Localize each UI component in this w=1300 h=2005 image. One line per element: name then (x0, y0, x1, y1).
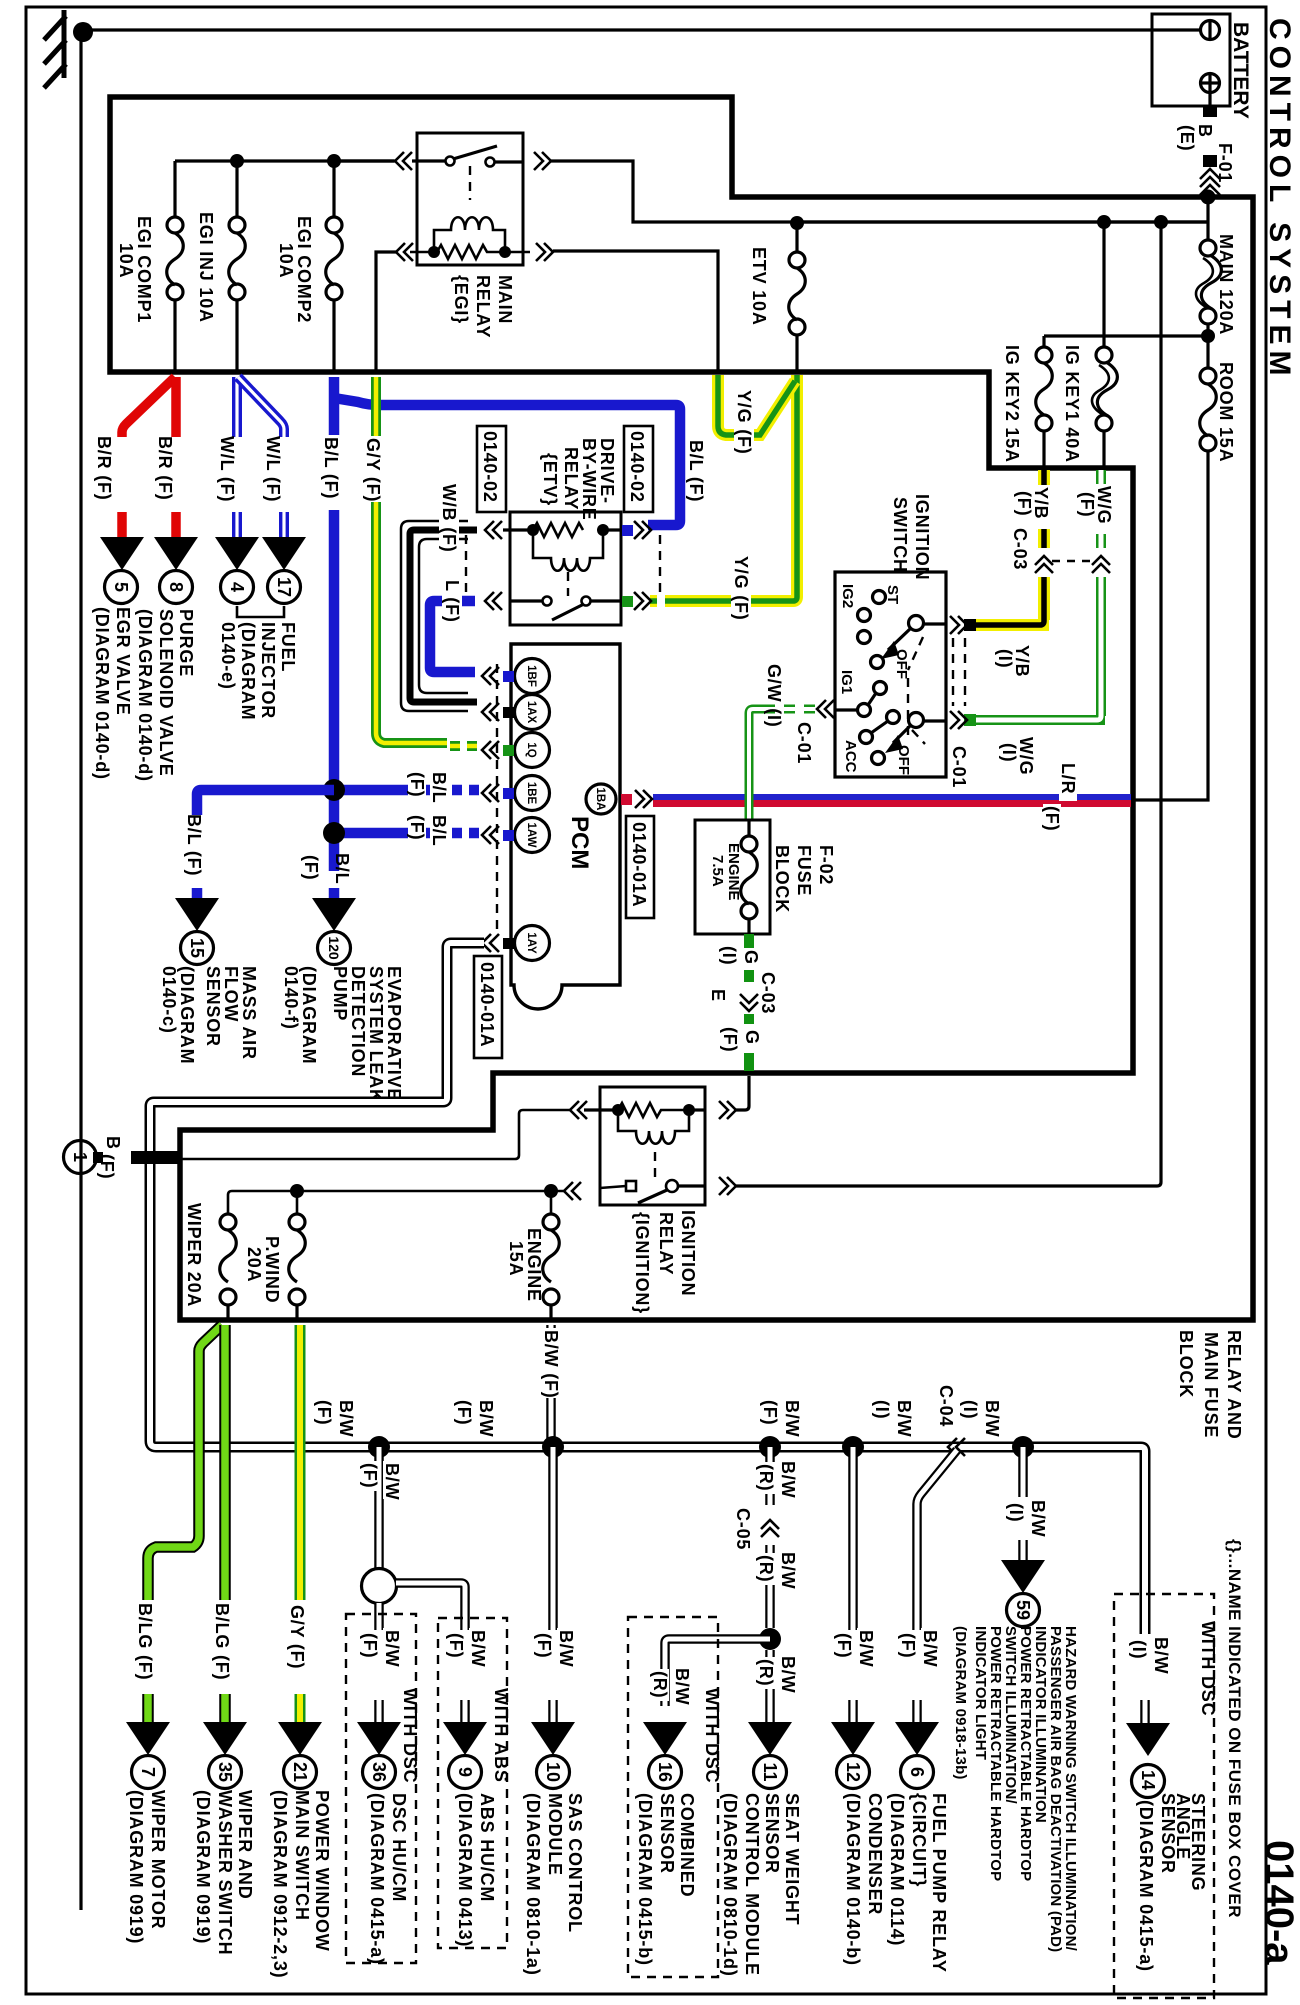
svg-text:15: 15 (187, 938, 207, 958)
svg-text:10: 10 (543, 1762, 563, 1782)
wire ROOM fuse output to L/R (1133, 451, 1208, 800)
label B/W (F) on bus mid (476, 1398, 496, 1437)
svg-text:(F): (F) (1014, 491, 1034, 516)
ignition relay coil row (584, 1108, 614, 1111)
label Y/B (I) (995, 643, 1032, 693)
label B/W (I) after C-04 (982, 1398, 1002, 1437)
wire B/L to PCM 1AW (340, 828, 447, 839)
connector F-01 chevrons (1200, 169, 1220, 195)
svg-text:15A: 15A (506, 1241, 526, 1276)
svg-text:G/Y (F): G/Y (F) (287, 1605, 307, 1669)
svg-text:COMBINED: COMBINED (677, 1793, 697, 1897)
svg-text:12: 12 (843, 1762, 863, 1782)
svg-text:B/W: B/W (982, 1400, 1002, 1437)
svg-text:SENSOR: SENSOR (1158, 1793, 1178, 1874)
connector chevrons G/W at ignition switch (817, 700, 826, 718)
dashed option box WITH DSC (346, 1614, 416, 1963)
label B/W (F) (556, 1628, 576, 1667)
svg-text:WITH ABS: WITH ABS (491, 1688, 511, 1783)
svg-text:FLOW: FLOW (221, 966, 241, 1022)
svg-text:B/R (F): B/R (F) (94, 436, 114, 501)
DBW relay coil (533, 530, 603, 571)
boxed label 0140-01A below PCM (474, 956, 502, 1058)
wire B/W drop to splice (374, 1447, 384, 1569)
wire EGI fuse bus (175, 159, 395, 162)
svg-text:RELAY: RELAY (473, 275, 493, 338)
svg-text:POWER WINDOW: POWER WINDOW (312, 1790, 332, 1952)
svg-text:BLOCK: BLOCK (772, 845, 792, 913)
svg-text:IG1: IG1 (838, 670, 855, 694)
svg-text:14: 14 (1138, 1770, 1158, 1790)
svg-text:G/Y (F): G/Y (F) (363, 438, 383, 502)
wire G (F) segment to fuse block boundary (744, 1053, 754, 1071)
terminal circle 16 (649, 1756, 682, 1789)
svg-text:(DIAGRAM 0415-a): (DIAGRAM 0415-a) (367, 1793, 387, 1965)
pin 1BF (515, 659, 550, 694)
wire G/W (I) solid to F-02 (749, 709, 772, 820)
DBW relay resistor row (503, 528, 529, 531)
arrow to purge solenoid valve (154, 537, 198, 570)
svg-text:RELAY: RELAY (656, 1212, 676, 1275)
dashed mechanical link (908, 637, 925, 744)
battery box (1152, 14, 1230, 106)
ignition relay coil (618, 1110, 689, 1144)
svg-text:16: 16 (655, 1762, 675, 1782)
svg-text:35: 35 (215, 1762, 235, 1782)
svg-text:B/L: B/L (332, 853, 352, 884)
svg-text:(DIAGRAM 0415-a): (DIAGRAM 0415-a) (1136, 1800, 1156, 1972)
arrow to seat weight sensor control module (748, 1722, 792, 1755)
svg-text:(DIAGRAM 0413): (DIAGRAM 0413) (455, 1793, 475, 1947)
wire battery bus y222 (797, 220, 1208, 223)
svg-text:(DIAGRAM 0912-2,3): (DIAGRAM 0912-2,3) (270, 1790, 290, 1978)
connector F-01 terminal squares (1203, 107, 1217, 117)
label B/W (F) (541, 1328, 561, 1399)
svg-text:B/W: B/W (382, 1630, 402, 1667)
wire G (I) below F-02 (744, 934, 754, 948)
wire B/LG (F) to wiper motor (148, 1325, 222, 1722)
wire IG1 to G/W (835, 708, 858, 711)
terminal circle 17 (268, 571, 301, 604)
wire main relay output to ETV bus (551, 161, 1208, 222)
svg-text:0140-e): 0140-e) (218, 622, 238, 690)
ground terminal circle 1 (64, 1141, 97, 1174)
svg-text:C-01: C-01 (794, 722, 814, 764)
ignition switch blade B with arrow to OFF (909, 616, 924, 631)
connector dashed sides DBW relay (465, 535, 467, 596)
svg-text:B/L (F): B/L (F) (184, 814, 204, 876)
connector dashed line at PCM (496, 664, 498, 936)
svg-text:W/L (F): W/L (F) (263, 436, 283, 502)
svg-text:B/W: B/W (920, 1630, 940, 1667)
connector C-01 dashed tie lines (952, 638, 954, 706)
svg-text:5: 5 (111, 582, 131, 592)
fuse ETV 10A (795, 223, 798, 252)
ignition relay switch row (626, 1181, 636, 1191)
pin 1AX (515, 695, 550, 730)
pin 1BA right side (586, 784, 616, 814)
svg-text:(DIAGRAM 0140-d): (DIAGRAM 0140-d) (135, 609, 155, 782)
svg-text:SENSOR: SENSOR (203, 966, 223, 1047)
svg-text:WIPER AND: WIPER AND (235, 1790, 255, 1900)
connector C-04 chevrons (948, 1438, 957, 1456)
svg-text:EVAPORATIVE: EVAPORATIVE (384, 966, 404, 1101)
svg-text:C-05: C-05 (733, 1508, 753, 1550)
svg-text:(DIAGRAM 0140-b): (DIAGRAM 0140-b) (843, 1793, 863, 1966)
fuse IG KEY1 40A (fusible link) (1102, 222, 1105, 348)
svg-text:W/L (F): W/L (F) (217, 436, 237, 502)
terminal circle 12 (837, 1756, 870, 1789)
svg-text:B/L: B/L (429, 772, 449, 803)
relay IGNITION RELAY box (600, 1087, 705, 1205)
fuse EGI INJ 10A (235, 161, 238, 218)
wire W/B (F) from DBW coil to PCM 1AX (401, 521, 468, 711)
svg-text:MAIN: MAIN (495, 275, 515, 324)
svg-text:ENGINE: ENGINE (725, 843, 742, 901)
PCM box with connector notch (511, 644, 620, 1009)
wire B/W drop to SAS module (548, 1447, 558, 1722)
svg-text:ST: ST (884, 585, 901, 604)
svg-text:(I): (I) (999, 743, 1019, 762)
svg-text:(F): (F) (301, 855, 321, 880)
main relay coil and resistor (434, 217, 505, 250)
svg-text:INDICATOR LIGHT: INDICATOR LIGHT (972, 1626, 989, 1760)
svg-text:FUEL: FUEL (278, 622, 298, 672)
label Y/G (F) upper (734, 388, 754, 455)
svg-text:1AY: 1AY (525, 932, 537, 954)
arrow to condenser (831, 1722, 875, 1755)
svg-text:BATTERY: BATTERY (1229, 22, 1252, 119)
label B/W (I) steering (1151, 1635, 1171, 1674)
wire splice to DSC branch (374, 1603, 384, 1630)
fuse ROOM 15A (1200, 368, 1216, 384)
svg-text:{CIRCUIT}: {CIRCUIT} (909, 1793, 929, 1887)
terminal circle 9 (449, 1756, 482, 1789)
wire G/Y (F) to PCM 1Q (376, 377, 447, 743)
node ENGINE tap (544, 1184, 558, 1198)
svg-text:B/W: B/W (336, 1400, 356, 1437)
svg-text:C-04: C-04 (936, 1385, 956, 1427)
svg-text:(I): (I) (719, 946, 739, 965)
wire W/L (F) to injector 4 (232, 377, 242, 537)
svg-text:P.WIND: P.WIND (262, 1236, 282, 1303)
wire B/LG (F) to wiper washer switch (219, 1325, 231, 1722)
ground (chassis) symbol top-left (44, 10, 66, 88)
terminal circle 10 (537, 1756, 570, 1789)
wire Y/G dashes to DBW relay (650, 595, 676, 607)
svg-text:(F): (F) (834, 1633, 854, 1658)
terminal circle 59 (1007, 1594, 1040, 1627)
svg-text:11: 11 (760, 1762, 780, 1781)
svg-text:B/W: B/W (1151, 1637, 1171, 1674)
terminal circle 8 (160, 571, 193, 604)
node EGI INJ tap (230, 154, 244, 168)
dashed actuation link (567, 572, 569, 596)
svg-text:B/W: B/W (778, 1552, 798, 1589)
dashed option box WITH DSC (steering angle) (1114, 1594, 1214, 1998)
svg-text:B/R (F): B/R (F) (155, 436, 175, 501)
wire B/R (F) to EGR valve (122, 377, 175, 537)
svg-text:59: 59 (1013, 1600, 1033, 1620)
label B/W (F) right of dot770 (782, 1398, 802, 1437)
terminal square Y/G at DBW (622, 596, 633, 607)
bracket fuel injector group (237, 606, 284, 617)
ignition switch box (835, 572, 946, 777)
battery positive terminal (1201, 74, 1220, 93)
wire splice to ABS branch (396, 1583, 465, 1630)
svg-text:SYSTEM LEAK: SYSTEM LEAK (366, 966, 386, 1103)
svg-text:0140-c): 0140-c) (159, 966, 179, 1034)
fuse WIPER 20A (220, 1214, 236, 1230)
svg-text:(F): (F) (1077, 492, 1097, 517)
ignition switch blade ACC row with arrow to OFF (909, 713, 924, 728)
svg-text:B/W: B/W (782, 1400, 802, 1437)
wire stub to arrow 36 (374, 1700, 384, 1722)
label B/W (I) (1028, 1498, 1048, 1537)
svg-text:DETECTION: DETECTION (348, 966, 368, 1077)
svg-text:MASS AIR: MASS AIR (239, 966, 259, 1060)
svg-text:F-02: F-02 (816, 845, 836, 885)
svg-text:(DIAGRAM 0810-1d): (DIAGRAM 0810-1d) (720, 1793, 740, 1977)
svg-text:E: E (708, 989, 728, 1002)
svg-text:(F): (F) (454, 1400, 474, 1425)
wire branch to combined sensor (665, 1639, 770, 1706)
svg-text:ABS HU/CM: ABS HU/CM (477, 1793, 497, 1902)
wire battery positive lead (1208, 91, 1211, 108)
svg-text:(E): (E) (1177, 125, 1197, 151)
wire IG fuse bus y336 (1044, 334, 1208, 337)
svg-text:B/W: B/W (672, 1668, 692, 1705)
arrow to fuel injector 4 (215, 537, 259, 570)
node B/W bus at seat-weight drop (759, 1436, 781, 1458)
svg-text:SOLENOID VALVE: SOLENOID VALVE (156, 609, 176, 777)
svg-text:(F): (F) (407, 772, 427, 797)
svg-text:C-03: C-03 (1010, 528, 1030, 570)
label W/B (F) (439, 482, 459, 553)
svg-text:{ETV}: {ETV} (540, 453, 560, 506)
svg-text:(DIAGRAM 0810-1a): (DIAGRAM 0810-1a) (523, 1793, 543, 1976)
connector chevrons DBW relay (485, 521, 494, 539)
label B/L (F) crossing (429, 813, 449, 849)
label B/W (F) on bus left (336, 1398, 356, 1437)
connector C-05 chevrons (761, 1520, 779, 1529)
svg-text:ENGINE: ENGINE (524, 1228, 544, 1302)
svg-text:G/W (I): G/W (I) (764, 664, 784, 728)
fuse ENGINE 15A (550, 1191, 553, 1215)
svg-text:(F): (F) (97, 1154, 117, 1179)
connector chevron right of main relay switch (534, 152, 543, 170)
arrow to wiper motor (126, 1722, 170, 1755)
connector chevrons main relay coil row (396, 243, 405, 261)
svg-text:C-03: C-03 (758, 972, 778, 1014)
svg-text:B/W: B/W (476, 1400, 496, 1437)
svg-text:Y/G (F): Y/G (F) (731, 556, 751, 621)
svg-text:{}...NAME INDICATED ON FUSE BO: {}...NAME INDICATED ON FUSE BOX COVER (1225, 1539, 1244, 1918)
svg-text:B/W: B/W (894, 1400, 914, 1437)
svg-text:6: 6 (907, 1767, 927, 1777)
svg-text:(DIAGRAM 0918-13b): (DIAGRAM 0918-13b) (952, 1626, 969, 1780)
arrow to ABS HU/CM (443, 1722, 487, 1755)
svg-text:(F): (F) (720, 1027, 740, 1052)
arrow to wiper and washer switch (203, 1722, 247, 1755)
svg-text:ACC: ACC (842, 740, 859, 773)
svg-text:17: 17 (274, 577, 294, 597)
terminal circle 5 (105, 571, 138, 604)
label Y/G (F) lower (731, 554, 751, 621)
wire main relay coil left to G/Y drop (376, 252, 396, 372)
label B/W (R) below C-05 (778, 1550, 798, 1589)
svg-text:MAIN SWITCH: MAIN SWITCH (292, 1790, 312, 1921)
svg-text:1: 1 (70, 1152, 90, 1162)
svg-text:Y/G (F): Y/G (F) (734, 390, 754, 455)
svg-text:B/L: B/L (429, 815, 449, 846)
ignition switch contacts ACC (887, 711, 900, 724)
terminal circle 14 (1132, 1765, 1165, 1798)
svg-text:WASHER SWITCH: WASHER SWITCH (215, 1790, 235, 1955)
svg-text:CONDENSER: CONDENSER (865, 1793, 885, 1915)
svg-text:0140-01A: 0140-01A (477, 962, 497, 1047)
label L/R (F) (1058, 761, 1078, 801)
svg-text:(R): (R) (756, 1659, 776, 1686)
svg-text:EGI COMP2: EGI COMP2 (294, 216, 314, 323)
connector C-03 chevrons on Y/B (1035, 556, 1053, 565)
main relay switch contacts and blade (446, 157, 455, 166)
svg-text:(I): (I) (872, 1400, 892, 1419)
svg-text:IG KEY1 40A: IG KEY1 40A (1062, 345, 1082, 463)
svg-text:1AX: 1AX (525, 701, 537, 724)
wire G (F) (744, 1014, 754, 1024)
label B/W (R) combined sensor (672, 1666, 692, 1705)
wire B/W drop to hazard illumination (1018, 1447, 1028, 1560)
node B/W bus at condenser drop (842, 1436, 864, 1458)
svg-text:FUSE: FUSE (794, 845, 814, 896)
svg-text:WITH DSC: WITH DSC (400, 1688, 420, 1783)
wire ignition relay coil to ground bar (179, 1110, 570, 1159)
svg-text:9: 9 (455, 1767, 475, 1777)
svg-text:(I): (I) (1006, 1503, 1026, 1522)
label B/W (F) (920, 1628, 940, 1667)
svg-text:IG2: IG2 (839, 584, 856, 608)
svg-text:G: G (741, 950, 761, 965)
svg-text:(R): (R) (650, 1671, 670, 1698)
svg-text:WIPER 20A: WIPER 20A (184, 1203, 204, 1307)
fuse MAIN 120A (fusible link) (1200, 240, 1216, 256)
arrow to evaporative pump (312, 898, 356, 931)
svg-text:120: 120 (326, 936, 342, 960)
wire battery vertical to MAIN fuse (1206, 197, 1209, 241)
label B/W (F) (856, 1628, 876, 1667)
svg-text:0140-02: 0140-02 (480, 431, 500, 503)
svg-text:B/W: B/W (1028, 1500, 1048, 1537)
fuse PWIND 20A (296, 1191, 299, 1215)
wire G/Y (F) to power window main switch (295, 1325, 306, 1722)
pin 1Q (515, 733, 550, 768)
svg-text:WIPER MOTOR: WIPER MOTOR (148, 1790, 168, 1929)
dashed option box WITH ABS (438, 1618, 507, 1948)
wire main relay coil right to Y/G drop (553, 251, 718, 372)
dashed option box WITH DSC (combined sensor) (628, 1617, 718, 1977)
svg-text:B: B (1195, 124, 1215, 138)
label B/W (I) before C-04 (894, 1398, 914, 1437)
battery negative terminal (1201, 21, 1220, 40)
arrow to fuel injector 17 (262, 537, 306, 570)
L dashes (466, 596, 482, 607)
fuse block F-02 box (695, 820, 770, 934)
node ETV tap (790, 216, 804, 230)
svg-text:1BA: 1BA (594, 787, 606, 810)
svg-text:WITH DSC: WITH DSC (1198, 1621, 1218, 1716)
fuse IG KEY2 15A (1042, 336, 1045, 348)
svg-text:IGNITION: IGNITION (678, 1210, 698, 1296)
wire Y/B (I) to ignition switch (975, 577, 1049, 625)
ground bar B (F) (131, 1151, 179, 1164)
svg-text:(DIAGRAM: (DIAGRAM (177, 966, 197, 1064)
wire stub to arrow 14 (1140, 1700, 1150, 1723)
ignition switch contacts IG1 (874, 682, 887, 695)
wire stub to arrow 9 (460, 1700, 470, 1722)
svg-text:(F): (F) (898, 1633, 918, 1658)
node ignition relay feed tap (1154, 215, 1168, 229)
svg-text:PCM: PCM (566, 816, 593, 869)
label L (F) (442, 578, 462, 624)
wire into main relay switch (334, 159, 394, 162)
terminal circle 11 (754, 1756, 787, 1789)
svg-text:21: 21 (290, 1762, 310, 1782)
svg-text:BY-WIRE: BY-WIRE (579, 438, 599, 521)
wire G/W (I) dashes (772, 705, 815, 714)
dashed actuation link main relay (469, 166, 471, 200)
wire B/R (F) to purge solenoid (171, 377, 181, 537)
svg-text:1BF: 1BF (525, 665, 537, 687)
svg-text:B/LG (F): B/LG (F) (212, 1603, 232, 1680)
svg-text:CONTROL SYSTEM: CONTROL SYSTEM (1263, 18, 1296, 381)
wire B/L to evaporative pump (329, 888, 340, 898)
wire Y/G (F) from ETV fuse down (676, 375, 797, 601)
connector chevrons ignition relay switch (564, 1182, 573, 1200)
svg-text:IG KEY2 15A: IG KEY2 15A (1002, 345, 1022, 463)
ignition switch contacts IG2 (858, 609, 871, 622)
arrow to steering angle sensor (1126, 1723, 1170, 1756)
svg-text:CONTROL MODULE: CONTROL MODULE (742, 1793, 762, 1976)
svg-text:(I): (I) (995, 649, 1015, 668)
svg-text:IGNITION: IGNITION (912, 494, 932, 580)
relay DRIVE-BY-WIRE box (510, 512, 621, 625)
svg-text:OFF: OFF (893, 649, 910, 679)
svg-text:(DIAGRAM: (DIAGRAM (299, 966, 319, 1064)
wire W/G (F) from IG KEY1 fuse (1096, 470, 1106, 548)
svg-text:EGI INJ 10A: EGI INJ 10A (196, 212, 216, 323)
svg-text:(DIAGRAM 0415-b): (DIAGRAM 0415-b) (635, 1793, 655, 1966)
svg-text:MAIN 120A: MAIN 120A (1216, 234, 1236, 335)
svg-text:B/W: B/W (556, 1630, 576, 1667)
label B/W (F) (468, 1628, 488, 1667)
label B/W (F) (382, 1461, 402, 1500)
terminal circle 6 (901, 1756, 934, 1789)
fuse EGI COMP1 10A (173, 161, 176, 218)
wire ignition relay coil feed (734, 1076, 749, 1110)
wire G dash (744, 970, 754, 990)
svg-text:DRIVE-: DRIVE- (597, 438, 617, 504)
svg-text:0140-a: 0140-a (1257, 1840, 1300, 1965)
arrow to fuel pump relay (895, 1722, 939, 1755)
svg-text:(DIAGRAM: (DIAGRAM (238, 622, 258, 720)
connector chevrons ignition relay coil left (570, 1101, 579, 1119)
svg-text:RELAY AND: RELAY AND (1224, 1330, 1244, 1440)
terminal circle 21 (284, 1756, 317, 1789)
svg-text:C-01: C-01 (949, 746, 969, 788)
arrow to power window main switch (278, 1722, 322, 1755)
wire B/L to PCM 1BE (340, 785, 447, 796)
